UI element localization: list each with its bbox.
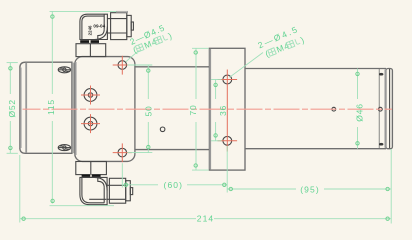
dim 95 line xyxy=(227,187,391,190)
crosshair lower-left hole xyxy=(81,114,100,133)
right cap shaded edge xyxy=(384,70,386,148)
cap barrel joint line xyxy=(25,63,27,153)
flange vertical centerline xyxy=(226,70,228,152)
annotation left M4 note line2 xyxy=(132,30,174,55)
dim 214 right extension xyxy=(390,149,392,224)
top fitting raised strip xyxy=(117,11,128,12)
bottom elbow base line xyxy=(89,198,106,200)
main block xyxy=(75,57,135,162)
svg-text:09-04: 09-04 xyxy=(93,23,105,28)
right tube top edge xyxy=(245,68,386,70)
joint band between cap and block xyxy=(72,63,75,154)
bottom fitting hex line lower xyxy=(109,198,125,200)
mid tube top edge xyxy=(135,66,210,68)
flange hole bottom xyxy=(223,136,232,145)
dim 36 line xyxy=(214,80,217,141)
top elbow inner corner arc xyxy=(82,16,104,39)
dim 50 line xyxy=(147,65,150,153)
leader right annotation xyxy=(230,53,264,78)
svg-text:214: 214 xyxy=(197,214,214,224)
flange left shaded edge xyxy=(209,49,211,169)
dim 115 bottom extension xyxy=(50,205,115,207)
bottom elbow port step line xyxy=(103,188,105,203)
cap left shaded edge xyxy=(20,68,22,149)
top port boss xyxy=(76,44,106,57)
dim 60 extension from block hole xyxy=(121,163,123,187)
leader left annotation xyxy=(126,50,140,62)
top fitting tab xyxy=(131,22,133,30)
dim 50 extension ticks xyxy=(128,64,153,66)
top straight fitting body xyxy=(111,13,127,40)
top elbow bend arcs xyxy=(94,27,107,40)
annotation left 2-phi4.5 line1 xyxy=(128,22,166,46)
block hole bottom-right xyxy=(118,148,127,157)
svg-text:36: 36 xyxy=(218,105,228,116)
small circle near right cap xyxy=(378,107,382,111)
left end cap body xyxy=(20,62,72,153)
svg-text:50: 50 xyxy=(143,105,153,116)
vent hole circle xyxy=(160,127,165,132)
crosshair top-right hole xyxy=(113,56,132,75)
top fitting collar xyxy=(127,15,131,36)
right cap screw top xyxy=(379,73,383,76)
crosshair bottom-right hole xyxy=(113,143,132,162)
svg-text:(95): (95) xyxy=(300,184,320,194)
annotation right M4 note line2 xyxy=(264,35,306,60)
flange plate xyxy=(209,48,245,170)
dim phi52 line xyxy=(7,63,18,154)
dim 60 line xyxy=(122,183,227,186)
cap screw top (side view) xyxy=(58,67,70,73)
tube end joint line xyxy=(378,69,380,148)
block hole top-right xyxy=(118,61,127,70)
flange hole top xyxy=(223,75,232,84)
bottom fitting joint lines xyxy=(107,184,109,186)
dim 70 line xyxy=(194,48,197,170)
svg-text:70: 70 xyxy=(188,104,198,115)
dim 214 line xyxy=(20,217,391,220)
bottom straight fitting body xyxy=(109,178,125,203)
svg-text:(60): (60) xyxy=(164,180,184,190)
bottom elbow locknut band xyxy=(82,175,101,177)
annotation right 2-phi4.5 line1 xyxy=(256,24,300,51)
block left shaded edge xyxy=(75,62,77,155)
right cap inner line xyxy=(389,69,391,148)
bottom fitting hex line upper xyxy=(109,184,125,186)
cap screw bottom (side view) xyxy=(58,145,70,151)
bottom fitting collar xyxy=(126,181,131,201)
dim 214 left extension xyxy=(19,155,21,223)
mid tube bottom edge xyxy=(135,149,210,151)
bottom fitting tab xyxy=(130,188,132,195)
bottom port boss xyxy=(76,162,107,175)
right cap ring xyxy=(386,69,393,149)
dim phi46 line xyxy=(356,69,359,149)
dim 115 line xyxy=(51,11,55,203)
bottom elbow bend arcs xyxy=(94,177,107,190)
top elbow fitting body xyxy=(80,14,108,39)
bottom boss divider xyxy=(90,162,92,175)
bottom elbow inner corner arc xyxy=(82,177,105,202)
crosshair flange bottom hole xyxy=(218,140,238,142)
dim 36 extension ticks xyxy=(211,79,222,81)
top elbow locknut band xyxy=(80,40,99,43)
right tube bottom edge xyxy=(245,148,386,150)
bottom elbow fitting body xyxy=(80,177,107,204)
right cap screw bottom xyxy=(379,143,383,146)
dim 60 extension at flange holes xyxy=(226,146,228,193)
svg-text:115: 115 xyxy=(46,99,56,115)
dim 115 top extension xyxy=(50,10,117,12)
dim 70 extension ticks xyxy=(192,47,209,49)
top fitting joint lines xyxy=(107,18,110,20)
crosshair flange top hole xyxy=(218,79,238,81)
svg-text:Ø46: Ø46 xyxy=(355,103,365,121)
small circle on centerline mid-right xyxy=(332,107,336,111)
svg-text:2246: 2246 xyxy=(87,25,92,35)
top fitting hex line lower xyxy=(111,32,127,34)
top boss divider xyxy=(89,44,91,57)
block hole lower-left counterbore xyxy=(84,117,97,130)
top fitting hex line upper xyxy=(111,18,127,20)
top elbow port step line xyxy=(103,14,105,29)
svg-text:Ø52: Ø52 xyxy=(7,99,17,117)
block hole upper-left counterbore xyxy=(84,89,97,102)
crosshair upper-left hole xyxy=(81,86,100,105)
main horizontal centerline xyxy=(23,108,393,110)
